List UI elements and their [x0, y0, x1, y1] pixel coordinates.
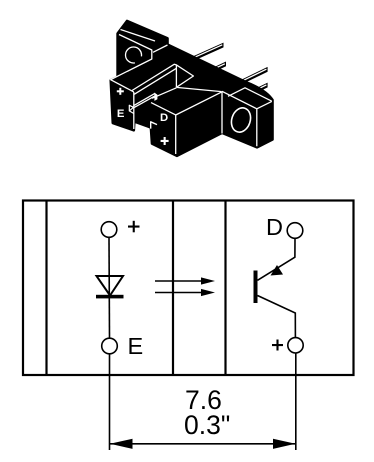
svg-text:D: D: [266, 214, 283, 240]
svg-text:D: D: [160, 112, 168, 124]
svg-text:0.3": 0.3": [184, 410, 230, 440]
svg-text:E: E: [117, 108, 125, 120]
svg-text:E: E: [128, 333, 144, 359]
